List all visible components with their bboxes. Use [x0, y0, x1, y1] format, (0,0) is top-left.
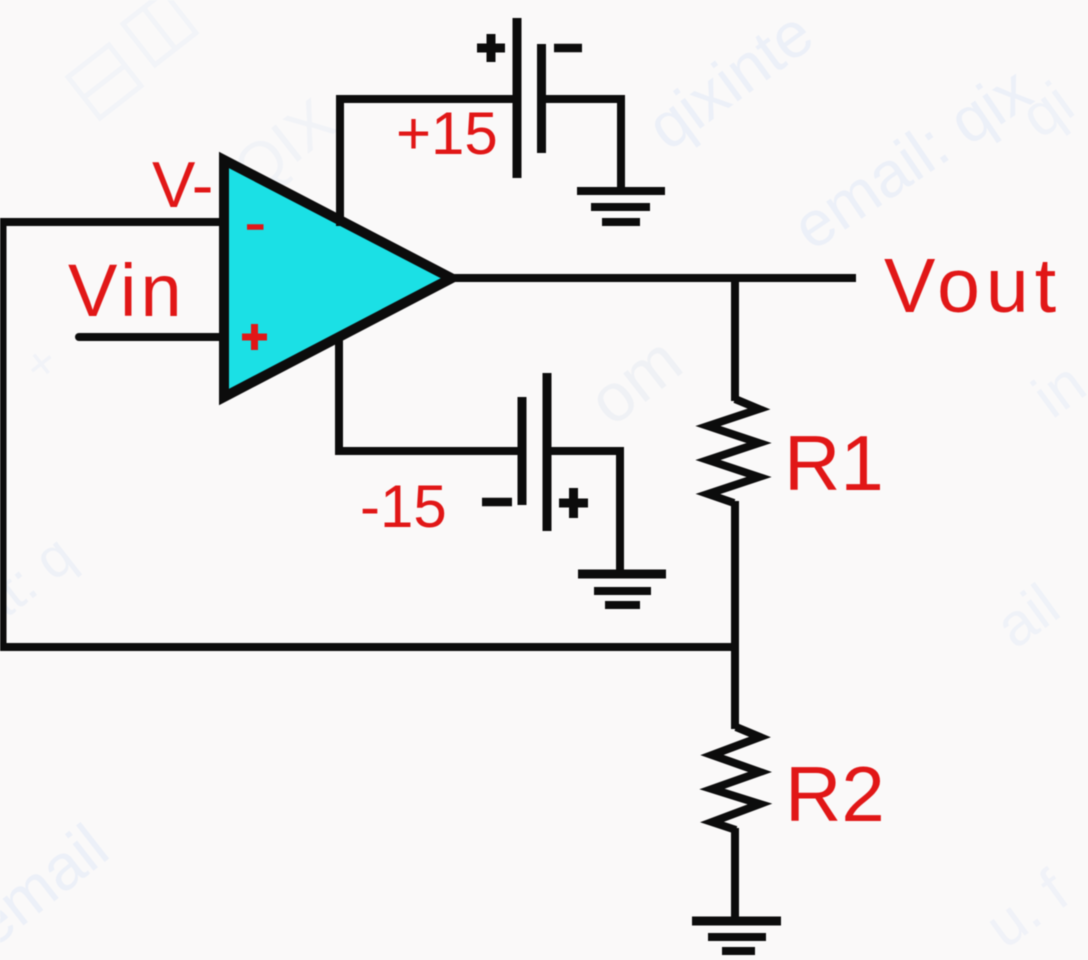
wire: output run to Vout [448, 274, 856, 282]
resistor R2 [712, 727, 760, 830]
wire: V- supply horizontal to battery [335, 447, 518, 455]
wire: bottom feedback run [0, 643, 739, 651]
label -15 [360, 473, 447, 540]
svg-text:+15: +15 [396, 100, 498, 167]
label +15 [396, 100, 498, 167]
node: output junction drop to R1 [731, 278, 739, 401]
wire: left vertical feedback riser [0, 222, 7, 647]
svg-text:Vout: Vout [884, 243, 1062, 329]
resistor R1 [708, 399, 759, 503]
wire: V+ supply horizontal to battery [336, 95, 513, 103]
wire: battery +15 to ground [546, 99, 621, 191]
wire: V+ supply vertical from op-amp top [336, 99, 344, 226]
label R2 [785, 750, 885, 838]
label Vin [68, 249, 186, 332]
wire: R1 to feedback node [731, 501, 739, 651]
ground (bottom supply) [578, 574, 666, 605]
wire: non-inverting input [79, 333, 228, 341]
battery -15 [482, 373, 588, 531]
svg-text:R1: R1 [784, 419, 884, 507]
op-amp U1 [224, 160, 452, 397]
ground (R2) [692, 921, 781, 951]
wire: R2 to ground [731, 828, 739, 921]
svg-text:Vin: Vin [68, 249, 186, 332]
wire: V- supply vertical from op-amp bottom [335, 334, 343, 451]
svg-text:R2: R2 [785, 750, 885, 838]
svg-text:V-: V- [152, 148, 213, 221]
wire: battery -15 to ground [551, 451, 620, 575]
label Vout [884, 243, 1062, 329]
wire: inverting input from left edge [0, 218, 228, 226]
label R1 [784, 419, 884, 507]
svg-text:-15: -15 [360, 473, 447, 540]
battery +15 [477, 18, 582, 178]
ground (top supply) [577, 191, 665, 222]
label V- [152, 148, 213, 221]
wire: feedback node to R2 [731, 643, 739, 729]
